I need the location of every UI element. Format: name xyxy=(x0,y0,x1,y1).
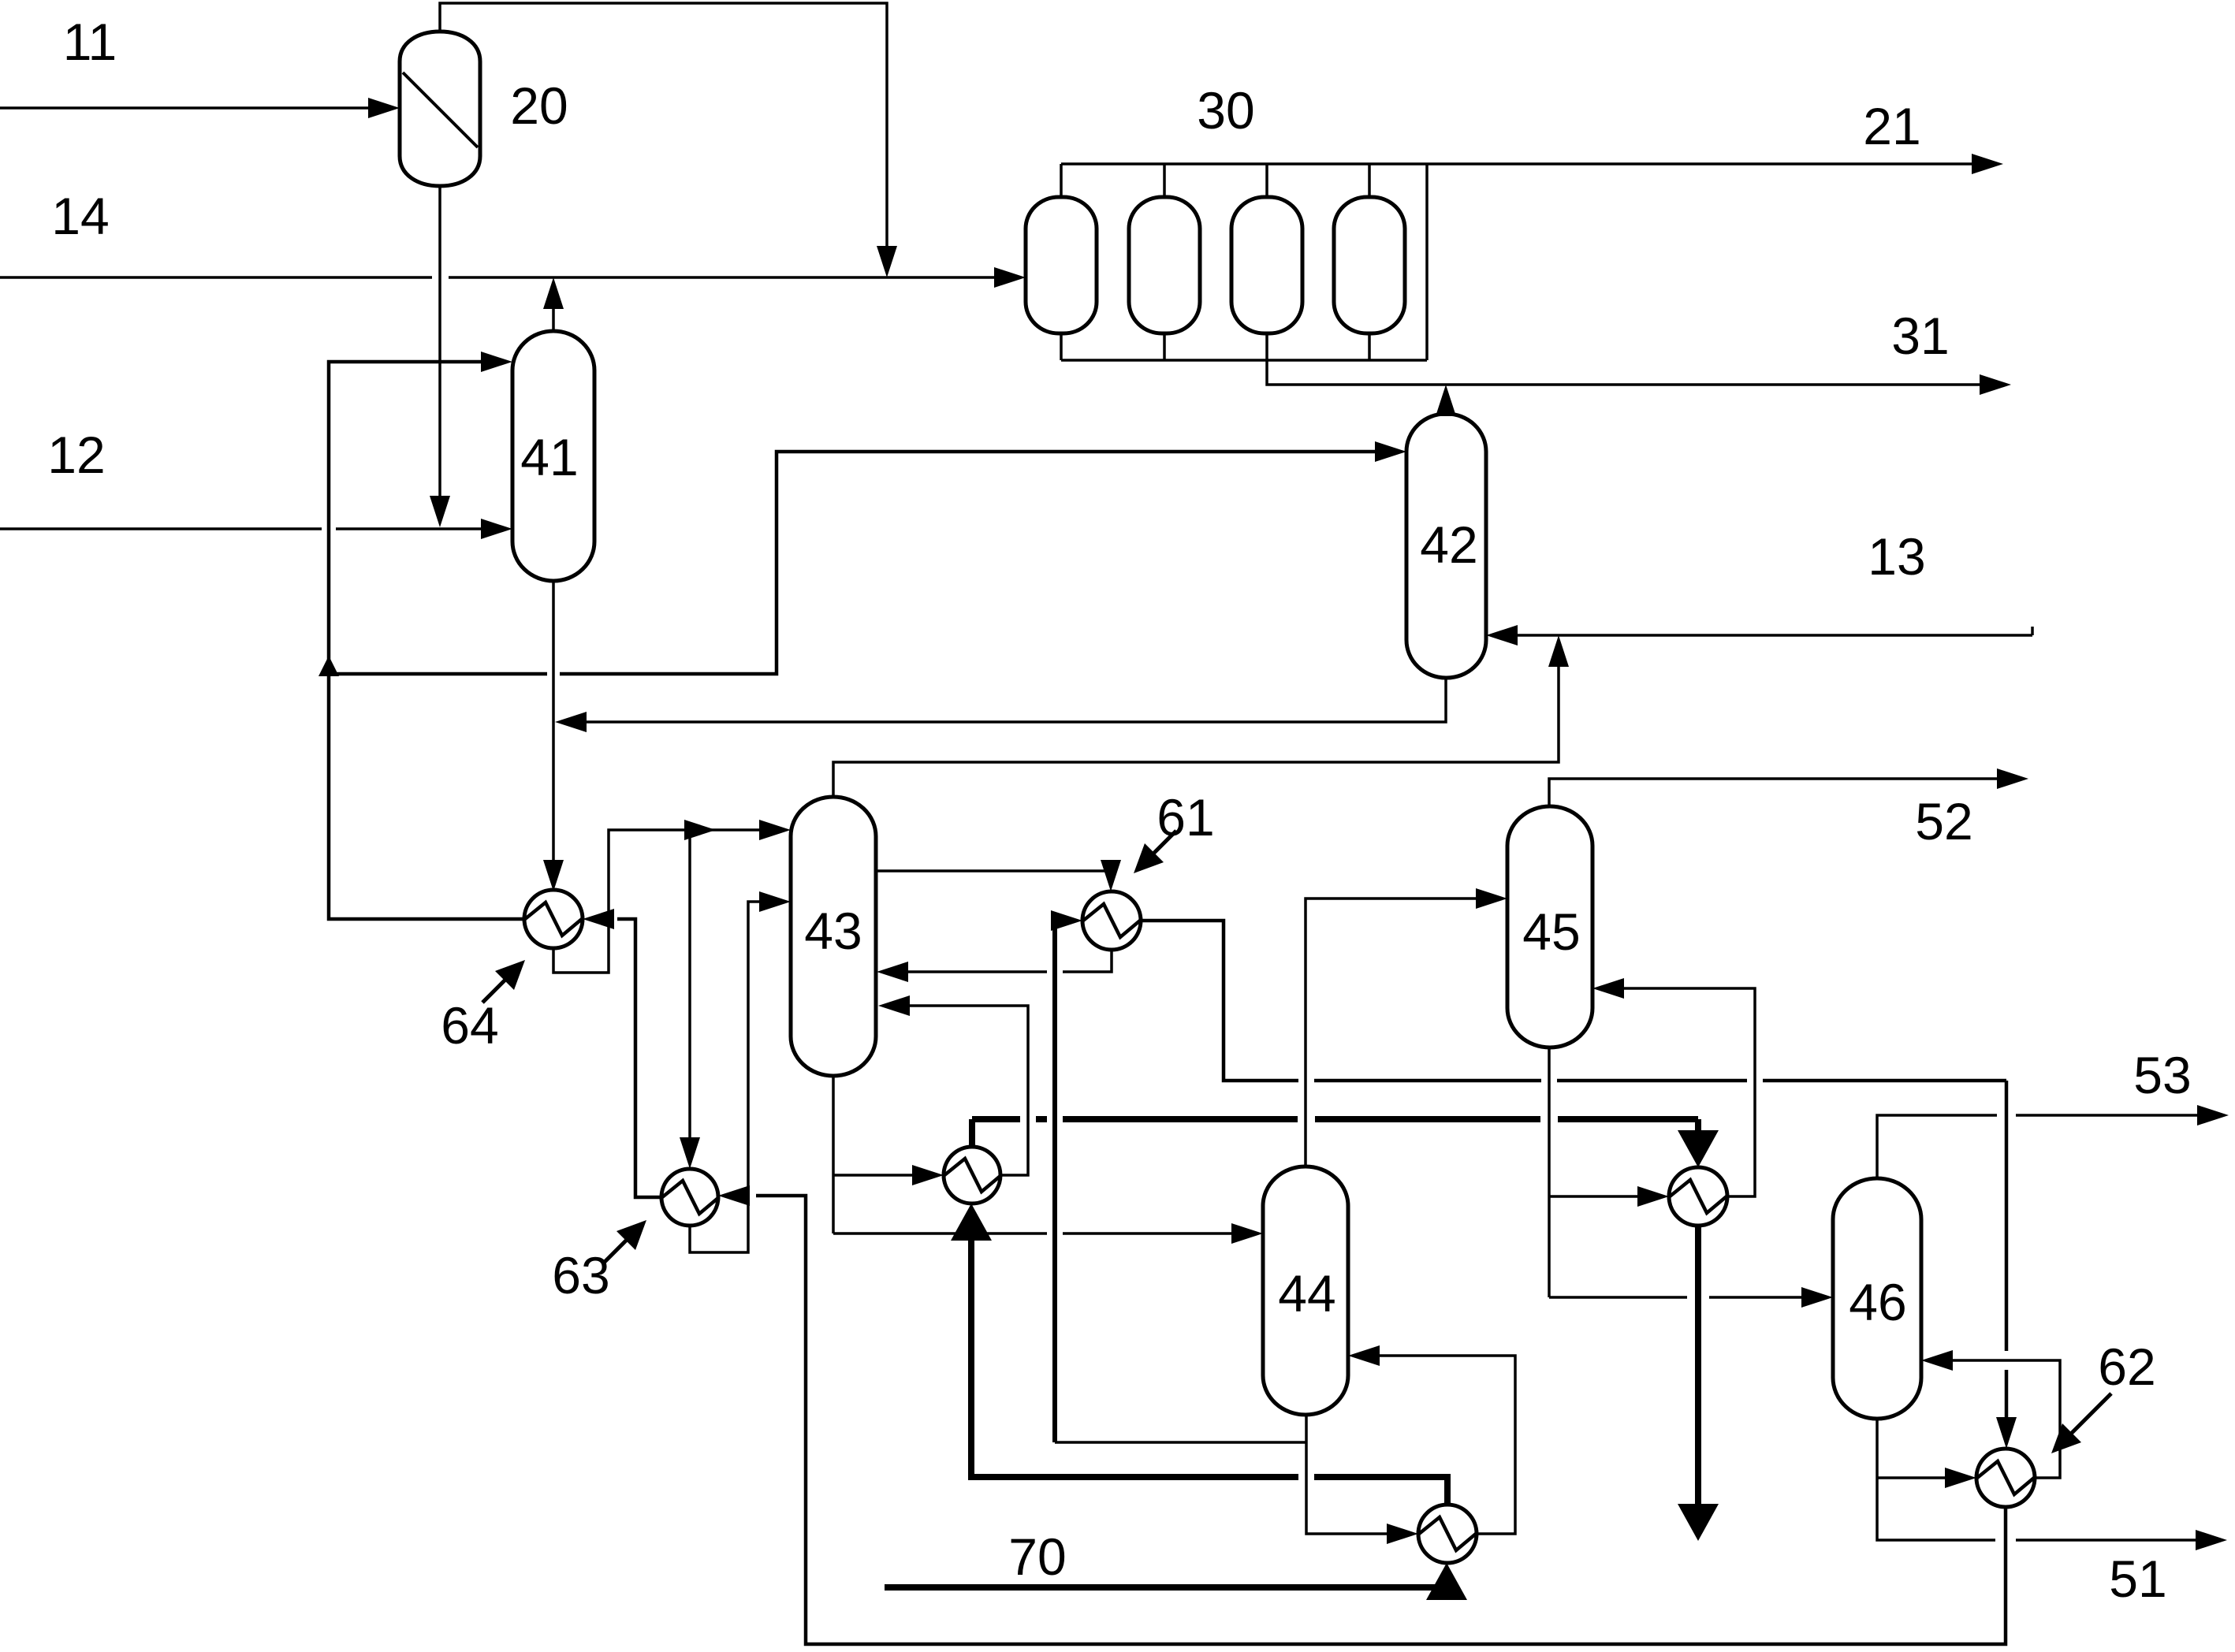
wire exchanger 43-reboiler return to vessel 43 xyxy=(888,1006,1028,1175)
arrow into vessel 43 right wall upper return xyxy=(877,962,908,982)
svg-text:42: 42 xyxy=(1420,515,1477,574)
svg-text:62: 62 xyxy=(2098,1338,2155,1396)
wire exchanger 44-reboiler return to vessel 44 xyxy=(1358,1356,1515,1534)
arrow into vessel 41 lower inlet xyxy=(481,519,512,539)
arrow into vessel 44 right wall return xyxy=(1348,1345,1380,1366)
wire vessel 20 overhead to line 14 xyxy=(440,3,887,268)
arrow stream 31 out xyxy=(1980,374,2011,395)
arrow into vessel 46 left inlet xyxy=(1801,1287,1833,1308)
arrow stream 21 out xyxy=(1972,154,2003,174)
exchanger 43-reboiler xyxy=(944,1147,1001,1204)
wire vessel 20 bottoms line xyxy=(438,186,441,519)
wire vessel 42 overhead riser xyxy=(1444,393,1447,414)
arrow 42-bottoms joins 41-bottoms line xyxy=(555,712,587,732)
svg-text:31: 31 xyxy=(1891,307,1949,365)
arrow junction at node (875,1053) xyxy=(684,820,716,840)
vessel 41 xyxy=(512,331,594,581)
wire stream 14 xyxy=(0,276,1018,279)
arrow into vessel 44 left inlet xyxy=(1231,1223,1263,1244)
svg-text:14: 14 xyxy=(51,187,109,245)
svg-text:41: 41 xyxy=(520,428,578,486)
arrow into vessel 20 xyxy=(368,98,400,118)
vessel 42 xyxy=(1406,414,1486,678)
arrow into exchanger 44-reboiler bottom xyxy=(1426,1563,1467,1600)
vessel bank 30 xyxy=(1026,197,1405,333)
wire branch down to exchanger 63 top xyxy=(688,830,691,1159)
wire vessel 45 overhead stream 52 xyxy=(1549,779,2021,806)
wire recycle branch to vessel 42 inlet xyxy=(329,452,1397,674)
arrow into vessel 42 right wall xyxy=(1486,625,1518,646)
wire steam stream 70 xyxy=(885,1584,1447,1587)
wire vessel 43 overhead to line 13 xyxy=(833,654,1559,797)
arrow into vessel 43 upper inlet xyxy=(759,820,791,840)
wire recycle riser x417 to vessel 41 top inlet xyxy=(329,362,524,919)
wire branch of 46 bottoms to exchanger 62 xyxy=(1877,1476,1967,1479)
wire exchanger 61 bottom return to vessel 43 xyxy=(886,950,1112,972)
wire vessel 43 side draw to exchanger 61 top xyxy=(876,871,1111,882)
svg-text:11: 11 xyxy=(63,13,117,71)
wire vessel 44 bottoms branch to exchanger 61 feed xyxy=(1055,1441,1306,1444)
arrow pointer label 63 xyxy=(602,1231,635,1264)
wire vessel 45 bottoms to vessel 46 xyxy=(1549,1047,1823,1297)
arrow stream 51 out xyxy=(2196,1530,2227,1550)
vessel 43 xyxy=(791,797,876,1076)
svg-text:13: 13 xyxy=(1868,527,1925,586)
svg-text:51: 51 xyxy=(2109,1550,2166,1608)
arrow into exchanger 62 top xyxy=(1996,1417,2017,1449)
wire stream 12 xyxy=(0,527,505,530)
svg-text:63: 63 xyxy=(552,1246,609,1304)
wire stream 31 xyxy=(1267,360,2003,385)
arrow into vessel 41 upper inlet xyxy=(481,352,512,372)
svg-text:20: 20 xyxy=(510,76,568,135)
arrow condensate discharge xyxy=(1678,1504,1719,1541)
wire vessel 46 overhead stream 53 xyxy=(1877,1115,2221,1178)
arrow into vessel 42 left inlet xyxy=(1375,441,1406,462)
svg-text:45: 45 xyxy=(1522,902,1580,961)
wire exchanger 61 hot outlet to exchanger 62 xyxy=(1140,921,2006,1439)
exchanger 45-reboiler xyxy=(1669,1167,1727,1226)
svg-text:46: 46 xyxy=(1849,1273,1906,1331)
wire vessel 44 bottoms to 44-reboiler xyxy=(1306,1415,1409,1534)
arrow into exchanger 43-reboiler bottom xyxy=(951,1204,992,1241)
arrow junction recycle split at (417,855) xyxy=(318,656,339,676)
wire manifold 30 top header / stream 21 xyxy=(1061,164,1995,197)
wire vessel 43 bottoms xyxy=(833,1076,1253,1233)
arrow into vessel 45 left inlet xyxy=(1476,888,1507,909)
arrow into vessel 43 right wall lower return xyxy=(878,995,910,1016)
arrow into exchanger 61 left xyxy=(1051,910,1082,931)
arrow junction 20-overhead joins line 14 xyxy=(877,246,897,277)
exchanger 61 xyxy=(1082,891,1141,950)
vessel 45 xyxy=(1507,806,1592,1047)
arrow stream 52 out xyxy=(1997,768,2028,789)
wire exchanger 64 bottom to vessel 43 upper inlet xyxy=(553,830,781,973)
vessel 20 xyxy=(400,32,480,186)
arrow into vessel bank 30 xyxy=(994,267,1026,288)
wire steam 44-reboiler top to 43-reboiler bottom xyxy=(971,1225,1447,1504)
arrow into exchanger 61 top xyxy=(1101,860,1121,891)
svg-text:44: 44 xyxy=(1278,1264,1335,1323)
arrow into vessel 45 right wall return xyxy=(1592,978,1624,999)
wire exchanger 62 return to vessel 46 xyxy=(1931,1360,2060,1478)
arrow pointer label 64 xyxy=(482,971,514,1003)
svg-text:53: 53 xyxy=(2133,1046,2191,1104)
arrow into exchanger 63 right xyxy=(718,1185,750,1206)
exchanger 64 xyxy=(524,890,583,948)
arrow pointer label 62 xyxy=(2064,1393,2111,1441)
vessel 44 xyxy=(1263,1166,1348,1415)
arrow junction 43-overhead joins line 13 xyxy=(1548,635,1569,667)
wire vessel 41 overhead riser xyxy=(552,285,555,331)
wire reboiler branch of 45 bottoms xyxy=(1549,1195,1659,1198)
svg-text:21: 21 xyxy=(1863,97,1920,155)
wire exchanger 63 bottom to vessel 43 lower inlet xyxy=(690,902,781,1252)
arrow into exchanger 45-reboiler left xyxy=(1637,1186,1669,1207)
svg-text:61: 61 xyxy=(1157,788,1214,846)
vessel 46 xyxy=(1833,1178,1921,1419)
exchanger 63 xyxy=(661,1169,719,1226)
arrow into exchanger 43-reboiler left xyxy=(912,1165,944,1185)
wire steam condensate out of 45-reboiler xyxy=(1695,1226,1701,1507)
exchanger 44-reboiler xyxy=(1418,1505,1477,1563)
wire vessel 46 bottoms stream 51 xyxy=(1877,1419,2219,1540)
arrow stream 53 out xyxy=(2197,1105,2229,1126)
arrow 20-bottoms joins stream 12 xyxy=(430,496,450,527)
arrow into vessel 43 lower inlet xyxy=(759,891,791,912)
svg-text:30: 30 xyxy=(1197,81,1254,140)
wire reboiler branch of 43 bottoms xyxy=(833,1174,934,1177)
arrow into exchanger 45-reboiler top xyxy=(1678,1130,1719,1167)
wire manifold 30 bottom header xyxy=(1061,164,1427,360)
arrow pointer label 61 xyxy=(1145,831,1176,862)
exchanger 62 xyxy=(1976,1449,2035,1507)
arrow into exchanger 64 top xyxy=(543,860,564,891)
svg-text:52: 52 xyxy=(1915,792,1972,850)
wire vessel 42 bottoms to node 702 xyxy=(563,678,1446,722)
wire steam 43-reboiler top to 45-reboiler top xyxy=(972,1119,1698,1147)
wire vessel 44 bottoms riser to exchanger 61 xyxy=(1055,921,1073,1442)
arrow into vessel 46 right wall return xyxy=(1921,1350,1953,1371)
arrow into exchanger 63 top xyxy=(680,1137,700,1169)
wire exchanger 45-reboiler return to vessel 45 xyxy=(1602,988,1755,1196)
wire stream 13 xyxy=(1496,627,2032,635)
svg-text:43: 43 xyxy=(804,902,862,960)
svg-text:70: 70 xyxy=(1008,1527,1066,1586)
wire stream 11 xyxy=(0,106,392,110)
arrow into exchanger 44-reboiler left xyxy=(1387,1524,1418,1544)
arrow into exchanger 62 left xyxy=(1945,1468,1976,1488)
wire vessel 44 overhead to vessel 45 xyxy=(1306,899,1498,1166)
arrow junction 41-overhead joins line 14 xyxy=(543,277,564,309)
wire vessel 41 bottoms to exchanger 64 xyxy=(552,581,555,882)
svg-text:12: 12 xyxy=(47,426,105,484)
arrow junction 42-overhead joins line 31 xyxy=(1436,385,1456,416)
arrow into exchanger 64 right xyxy=(583,909,614,929)
wire exchanger 63 outlet to exchanger 64 feed xyxy=(592,919,662,1197)
wire exchanger 62 bottom to exchanger 63 feed xyxy=(728,1196,2006,1644)
svg-text:64: 64 xyxy=(441,996,498,1055)
